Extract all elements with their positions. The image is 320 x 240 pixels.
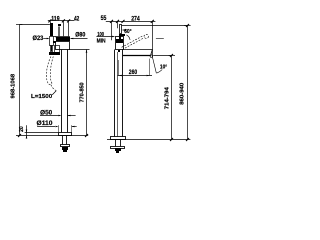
svg-text:770-850: 770-850 [79,82,85,102]
svg-text:Ø23: Ø23 [33,36,44,42]
svg-text:10°: 10° [160,64,168,70]
svg-text:55: 55 [101,16,107,22]
svg-text:860-940: 860-940 [180,83,186,105]
svg-text:MIN: MIN [97,39,106,45]
svg-text:20: 20 [19,126,25,132]
svg-text:968-1068: 968-1068 [11,74,17,99]
svg-text:Ø80: Ø80 [75,33,86,39]
svg-text:119: 119 [51,16,60,22]
svg-text:714-794: 714-794 [164,86,170,109]
svg-text:60°: 60° [124,29,132,35]
svg-text:274: 274 [131,17,140,23]
svg-text:L=1500: L=1500 [31,94,52,100]
svg-text:260: 260 [129,70,138,76]
svg-text:42: 42 [74,16,80,22]
svg-text:Ø110: Ø110 [37,121,54,127]
svg-text:Ø50: Ø50 [40,110,53,116]
svg-text:100: 100 [97,32,104,38]
